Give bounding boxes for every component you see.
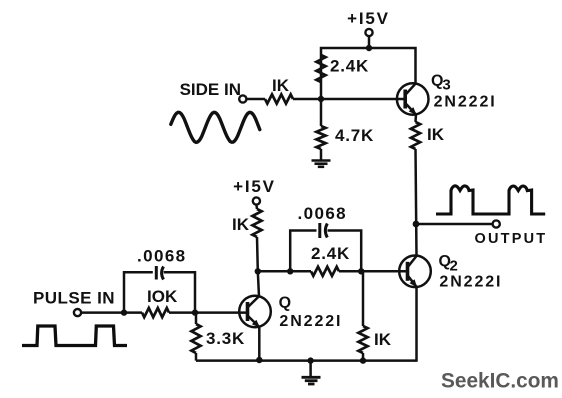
resistor R 1K (Q3 emitter): [411, 114, 445, 149]
wire Q collector up: [258, 271, 259, 296]
transistor Q2: [399, 255, 431, 287]
svg-text:.0068: .0068: [298, 204, 348, 223]
node pulse cap left: [121, 309, 127, 315]
pulse waveform symbol: [22, 326, 127, 346]
node pulse cap right: [192, 309, 198, 315]
resistor R 1K (middle +15V): [232, 205, 262, 272]
node rail left (1K / Q collector): [255, 268, 261, 274]
node output junction: [413, 221, 420, 228]
+15V supply terminal (top): [347, 9, 390, 36]
wire top rail: [321, 48, 416, 99]
node ground on bottom rail: [307, 357, 313, 363]
wire bottom rail: [196, 359, 417, 362]
wire Q3 emitter chain down to Q2 collector: [416, 149, 417, 256]
wire Q2 emitter down: [415, 287, 418, 362]
svg-text:4.7K: 4.7K: [335, 126, 374, 145]
node base junction Q3: [318, 96, 324, 102]
output waveform symbol: [436, 186, 545, 214]
resistor R 3.3K: [191, 313, 245, 361]
svg-text:OUTPUT: OUTPUT: [475, 231, 548, 247]
node top rail junction: [366, 45, 372, 51]
wire pulse in to Q base: [81, 311, 142, 314]
sine wave symbol (side input): [171, 112, 260, 142]
terminal PULSE IN: [33, 289, 115, 317]
resistor R 1K (bottom, Q2 base bias): [358, 271, 391, 360]
svg-text:2N222I: 2N222I: [439, 274, 502, 291]
svg-text:PULSE IN: PULSE IN: [33, 289, 115, 308]
label Q3: [431, 73, 451, 94]
svg-text:IK: IK: [427, 125, 445, 144]
svg-text:SIDE IN: SIDE IN: [180, 80, 241, 99]
svg-text:IOK: IOK: [147, 287, 178, 306]
transistor Q: [239, 296, 271, 328]
svg-text:2N222I: 2N222I: [279, 313, 342, 330]
resistor R 10K: [142, 287, 178, 317]
svg-text:.0068: .0068: [137, 247, 187, 266]
resistor R 2.4K (middle): [311, 244, 350, 276]
svg-text:IK: IK: [232, 215, 250, 234]
node cap branch right: [358, 268, 364, 274]
label Q2: [439, 253, 458, 274]
capacitor C .0068 (pulse input): [124, 247, 195, 313]
svg-text:IK: IK: [374, 330, 392, 349]
wire SIDE IN to Q3 base: [246, 98, 265, 101]
wire Q emitter down: [258, 327, 261, 361]
svg-text:IK: IK: [272, 76, 290, 95]
wire output: [416, 223, 493, 226]
resistor R 2.4K (top): [316, 55, 369, 82]
svg-text:Q: Q: [279, 294, 291, 311]
ground (bottom): [302, 361, 321, 384]
svg-text:+I5V: +I5V: [233, 177, 276, 196]
resistor R 1K (side input): [265, 76, 293, 104]
ground (under 4.7K): [312, 161, 331, 167]
node Q emitter on bottom rail: [256, 357, 262, 363]
svg-text:SeekIC.com: SeekIC.com: [441, 370, 559, 393]
terminal SIDE IN: [180, 80, 247, 103]
node cap branch left: [287, 268, 293, 274]
svg-text:2.4K: 2.4K: [330, 57, 369, 76]
svg-text:3: 3: [442, 77, 450, 94]
capacitor C .0068 (feedback, middle): [290, 204, 361, 271]
wire collector rail (Q to Q2 base): [258, 270, 311, 273]
svg-text:2: 2: [450, 257, 458, 274]
resistor R 4.7K: [316, 99, 374, 160]
node 1K on bottom rail: [360, 357, 366, 363]
svg-text:2.4K: 2.4K: [311, 244, 350, 263]
transistor Q3: [397, 83, 429, 115]
+15V supply terminal (middle): [233, 177, 276, 205]
svg-text:2N222I: 2N222I: [434, 94, 497, 111]
wire +15V stem: [368, 36, 371, 48]
svg-text:3.3K: 3.3K: [206, 329, 245, 348]
terminal OUTPUT: [475, 220, 548, 247]
svg-text:+I5V: +I5V: [347, 9, 390, 28]
